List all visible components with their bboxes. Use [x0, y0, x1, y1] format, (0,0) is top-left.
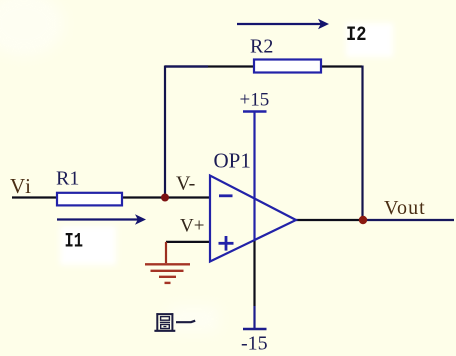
svg-text:OP1: OP1	[214, 148, 251, 172]
svg-text:R2: R2	[250, 36, 273, 58]
svg-text:V-: V-	[176, 173, 195, 195]
svg-text:Vout: Vout	[384, 197, 426, 219]
svg-text:Vi: Vi	[10, 174, 32, 198]
svg-text:I2: I2	[346, 24, 367, 47]
svg-text:I1: I1	[65, 231, 84, 254]
svg-text:R1: R1	[56, 168, 79, 190]
svg-text:V+: V+	[180, 216, 204, 237]
svg-text:+15: +15	[240, 90, 270, 111]
svg-text:-15: -15	[241, 333, 268, 355]
